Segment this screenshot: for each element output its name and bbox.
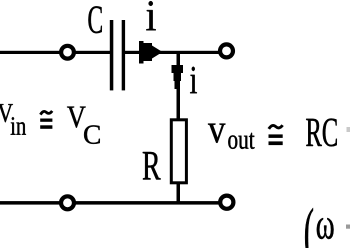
capacitor C right plate [122, 20, 125, 90]
capacitor C left plate [110, 20, 114, 90]
current arrow i (rightward on top wire) [139, 41, 163, 64]
wire from bottom-left terminal to bottom-right terminal [76, 201, 219, 205]
terminal node bottom-right [220, 196, 233, 209]
wire from capacitor to top-right terminal [125, 51, 219, 54]
congruence sign of V_in equation [40, 111, 52, 129]
terminal node bottom-left [61, 196, 74, 209]
current arrow i (downward into resistor) [172, 65, 184, 89]
resistor R label [143, 152, 161, 180]
expression RC [306, 119, 337, 147]
opening parenthesis of (omega...) [305, 208, 313, 248]
wire junction down to resistor [177, 52, 181, 119]
output label v_out : subscript out [228, 133, 254, 149]
omega symbol [317, 218, 334, 239]
wire bottom-left segment [0, 201, 60, 205]
faint cropped minus right of omega [346, 225, 350, 229]
congruence sign of v_out equation [269, 125, 283, 145]
terminal node top-right [220, 44, 233, 57]
wire top-left segment [0, 51, 60, 54]
node label V_in : subscript in [11, 117, 26, 135]
node label V_C : V [67, 107, 86, 128]
wire resistor bottom to bottom rail [177, 184, 181, 203]
capacitor C value label [88, 6, 101, 33]
node label V_in : V [0, 104, 13, 122]
node label V_C : subscript C [84, 125, 100, 143]
current label i (vertical branch) [190, 67, 197, 93]
current label i (top) [146, 1, 155, 30]
faint cropped mark right of RC [347, 127, 350, 132]
wire from top-left terminal to capacitor [75, 51, 111, 54]
output label v_out : v [208, 124, 225, 143]
terminal node top-left [61, 46, 74, 59]
resistor R body [171, 120, 186, 183]
